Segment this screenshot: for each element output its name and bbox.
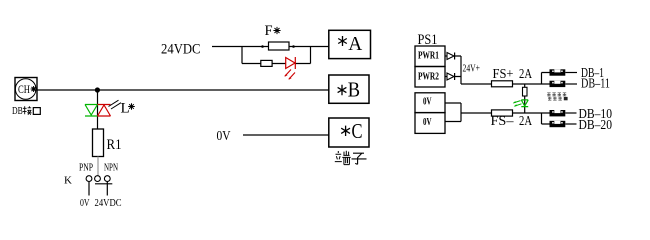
terminal block *A bbox=[329, 30, 371, 58]
svg-text:NPN: NPN bbox=[104, 163, 118, 174]
fuse FS+ bbox=[492, 81, 513, 87]
terminal DB-10 bbox=[550, 110, 577, 116]
svg-text:PWR1: PWR1 bbox=[418, 51, 439, 62]
wire FS+ line bbox=[461, 83, 550, 85]
svg-text:24VDC: 24VDC bbox=[161, 42, 201, 58]
wire lower branch bbox=[242, 63, 311, 65]
terminal block *C bbox=[329, 118, 369, 147]
svg-text:24V+: 24V+ bbox=[463, 62, 481, 74]
LED L* green bbox=[85, 105, 98, 117]
junction node bbox=[95, 87, 100, 92]
terminal DB-20 bbox=[550, 121, 577, 127]
svg-text:L: L bbox=[121, 100, 130, 116]
fuse pin tick left bbox=[261, 45, 264, 48]
svg-text:FS+: FS+ bbox=[493, 67, 514, 82]
wire PWR1 to D1 bbox=[445, 55, 447, 57]
power module PWR2 bbox=[415, 67, 445, 88]
LED power indicator green bbox=[513, 100, 528, 107]
wire R1 to selector K (gray) bbox=[97, 157, 99, 177]
svg-text:2A: 2A bbox=[519, 114, 533, 129]
svg-text:DB: DB bbox=[12, 105, 23, 117]
label L* bbox=[121, 100, 135, 116]
svg-text:CH: CH bbox=[18, 82, 30, 96]
LED L* emission arrows bbox=[109, 100, 122, 109]
svg-text:2A: 2A bbox=[519, 67, 533, 82]
diode D1 bbox=[447, 53, 461, 60]
svg-text:A: A bbox=[348, 33, 363, 55]
svg-text:K: K bbox=[64, 174, 72, 186]
resistor indicator dropper bbox=[523, 84, 528, 113]
svg-text:PWR2: PWR2 bbox=[418, 72, 439, 83]
wire LED branch vertical bbox=[97, 90, 99, 129]
svg-text:F: F bbox=[265, 23, 273, 39]
svg-text:R1: R1 bbox=[107, 137, 122, 153]
wire right parallel node bbox=[310, 47, 312, 64]
jumper bar NPN position bbox=[95, 183, 112, 185]
module 0V terminal 2 bbox=[415, 113, 445, 134]
resistor R1 bbox=[93, 129, 104, 157]
terminal block *B bbox=[329, 75, 369, 103]
svg-text:0V: 0V bbox=[80, 197, 90, 209]
LED indicator red (F* branch) bbox=[285, 57, 296, 80]
wire 24V+ bus bbox=[460, 56, 462, 84]
fuse FS- bbox=[492, 110, 513, 116]
svg-text:B: B bbox=[348, 78, 360, 102]
wire K to 0V bbox=[88, 182, 90, 196]
LED L* red bbox=[98, 105, 111, 117]
diode D2 bbox=[447, 73, 461, 80]
wire left parallel node bbox=[241, 47, 243, 64]
wire PWR2 to D2 bbox=[445, 76, 447, 78]
wire FS- line bbox=[461, 112, 550, 114]
label F* bbox=[265, 23, 281, 39]
svg-text:DB–11: DB–11 bbox=[581, 76, 610, 91]
svg-text:0V: 0V bbox=[217, 129, 231, 144]
connector CH* (DB interface) bbox=[15, 78, 37, 101]
wire 0V bracket bbox=[445, 103, 461, 122]
note 电源设置短接线 (tiny) bbox=[547, 93, 567, 101]
wire 24VDC feed line bbox=[212, 46, 329, 48]
svg-text:FS–: FS– bbox=[491, 114, 515, 129]
fuse pin tick right bbox=[292, 45, 295, 48]
label 端子 bbox=[335, 151, 367, 165]
label DB接口 bbox=[12, 105, 40, 117]
svg-text:0V: 0V bbox=[423, 97, 432, 108]
resistor series indicator bbox=[261, 60, 272, 66]
svg-text:PNP: PNP bbox=[79, 163, 93, 174]
wire branch up to DB-1 bbox=[542, 73, 550, 85]
terminal DB-1 bbox=[550, 69, 578, 75]
wire 0V to *C bbox=[243, 134, 329, 136]
wire main input line bbox=[37, 89, 329, 91]
wire branch down to DB-20 bbox=[542, 113, 550, 124]
power module PWR1 bbox=[415, 46, 445, 67]
terminal DB-11 bbox=[550, 81, 578, 87]
module 0V terminal 1 bbox=[415, 93, 445, 113]
svg-text:0V: 0V bbox=[423, 117, 432, 128]
svg-text:C: C bbox=[352, 119, 363, 143]
fuse F* bbox=[269, 42, 290, 50]
svg-text:24VDC: 24VDC bbox=[95, 197, 122, 209]
svg-text:DB–20: DB–20 bbox=[579, 117, 613, 132]
selector K terminal pins bbox=[86, 176, 110, 182]
wire K to 24VDC bbox=[106, 182, 108, 196]
